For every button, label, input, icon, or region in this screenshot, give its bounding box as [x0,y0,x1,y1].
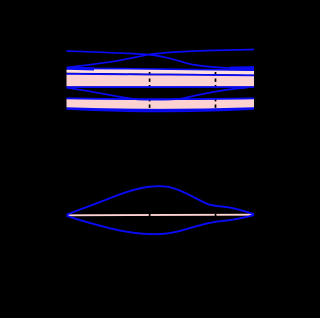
blue bottom edge of band 1 [67,86,255,88]
blue bottom edge of band 2 [67,108,255,110]
black dash notch 1 on zero line [149,214,151,217]
thin pink strip fill [67,69,255,75]
blue upper lens curve [67,186,255,215]
pink zero line [67,214,255,217]
blue lower lens curve [67,215,255,234]
blue curve L1 (descending from left) [67,51,255,68]
pink band 2 fill [67,99,255,109]
dashed symmetry line 1 lower panel [149,212,151,219]
dashed symmetry line 2 (black, visible only over pink) [215,46,217,113]
dashed symmetry line 2 lower panel [215,212,217,219]
black dash notch 2 on zero line [215,214,217,217]
blue top edge of thin strip [67,68,255,70]
blue curve R1 (rising to right) [68,50,254,68]
blue line between strip and band 1 [67,74,255,76]
dashed symmetry line 1 (black, visible only over pink) [149,46,151,113]
blue U-curve in gap [67,88,248,100]
pink band 1 fill [67,74,255,86]
blue top edge of band 2 [67,97,255,100]
blue cluster wedge at right [230,66,254,71]
blue cluster wedge at left [67,67,95,71]
blue sag line below band 2 [67,109,255,112]
